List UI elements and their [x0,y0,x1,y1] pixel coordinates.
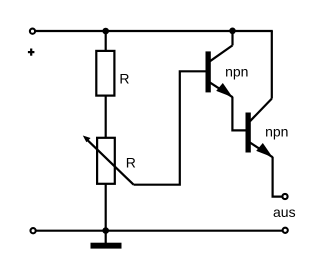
wire R1 to R2 lead [105,96,107,138]
wire Q1 emitter to Q2 base [232,97,245,131]
terminal aus (open circle) [282,194,287,199]
ground [91,243,122,249]
potentiometer R2 body [97,138,115,184]
wire top rail [36,30,273,32]
svg-text:npn: npn [265,123,288,139]
svg-text:R: R [119,71,129,87]
wire Q2 collector rail to top wire [271,31,273,99]
terminal plus input (top-left open circle) [30,29,35,34]
wire R2 bottom lead [105,185,107,231]
node junction bottom rail [102,227,109,234]
svg-text:npn: npn [225,63,248,79]
transistor Q1 (npn) [206,45,233,97]
potentiometer R2 arrow [83,136,134,185]
wire ground lead [105,231,107,243]
wire bottom rail [36,230,282,232]
terminal bottom-right (open circle) [283,228,288,233]
transistor Q2 (npn) [246,99,273,158]
wire wiper to Q1 base [134,71,206,184]
label + [28,49,35,56]
wire R1 top lead [105,31,107,51]
svg-text:aus: aus [273,204,296,220]
wire Q1 collector to top rail [231,31,233,45]
resistor R1 [96,51,114,96]
terminal bottom-left (open circle) [30,228,35,233]
wire Q2 emitter to aus terminal [273,157,282,197]
node junction Q1 collector [229,28,236,35]
node junction R1 top [102,28,109,35]
svg-text:R: R [126,154,136,170]
